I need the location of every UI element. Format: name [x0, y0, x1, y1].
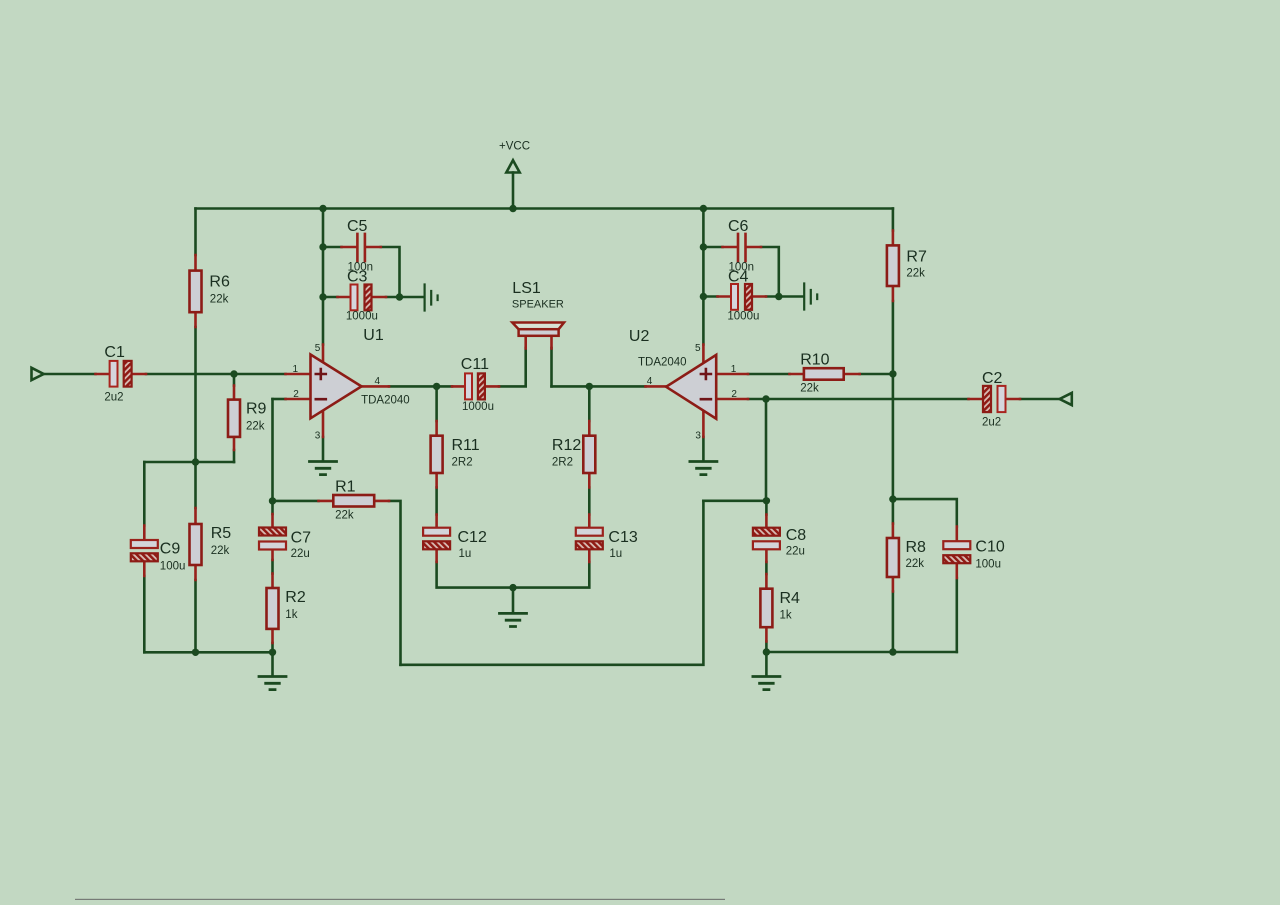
wire C5 row left: [323, 246, 342, 249]
wire U1 pin2 riser x=272.5: [271, 399, 274, 501]
svg-text:22k: 22k: [906, 268, 925, 280]
svg-text:1: 1: [293, 364, 299, 375]
wire R12 column top: [588, 386, 591, 421]
wire R11 to C12: [435, 488, 438, 515]
svg-text:1000u: 1000u: [346, 311, 378, 323]
wire top VCC rail: [196, 207, 893, 210]
svg-text:R2: R2: [285, 589, 306, 606]
svg-text:5: 5: [695, 343, 701, 354]
junction C5 left: [319, 243, 326, 250]
svg-text:22u: 22u: [786, 546, 805, 558]
capacitor C9: [131, 526, 158, 577]
wire C5 row right with corner down: [381, 247, 400, 297]
wire C4 row left: [703, 295, 717, 298]
resistor R10: [790, 368, 860, 380]
svg-text:C8: C8: [786, 527, 807, 544]
svg-text:22k: 22k: [335, 510, 354, 522]
wire U2 pin3 to ground: [702, 437, 705, 461]
wire R2 bottom to ground junction: [271, 643, 274, 652]
wire R8 top: [892, 499, 895, 523]
junction center ground node: [509, 584, 516, 591]
wire U2 pin1 row: [748, 373, 790, 376]
capacitor C1: [96, 361, 147, 387]
svg-text:C12: C12: [458, 529, 487, 546]
wire U1 pin5 column from rail: [322, 209, 325, 345]
junction bottom-left R5: [192, 649, 199, 656]
junction C6 left: [700, 243, 707, 250]
svg-text:1k: 1k: [285, 609, 297, 621]
svg-text:22u: 22u: [291, 548, 310, 560]
wire R6 to junction 462: [194, 327, 197, 462]
junction C4 right: [775, 293, 782, 300]
svg-text:2: 2: [731, 389, 737, 400]
wire R11 column top: [435, 386, 438, 421]
capacitor C7: [259, 514, 286, 560]
junction x=323 on rail: [319, 205, 326, 212]
resistor R2: [267, 574, 279, 644]
svg-text:1u: 1u: [459, 548, 472, 560]
junction R8 top node: [889, 495, 896, 502]
terminal output: [1060, 393, 1072, 405]
capacitor C2: [969, 386, 1021, 412]
wire U1 pin3 to ground: [322, 437, 325, 461]
svg-text:2R2: 2R2: [552, 457, 573, 469]
capacitor C13: [576, 515, 603, 563]
wire U1 output to C11: [389, 385, 452, 388]
ground below R2: [271, 652, 274, 675]
resistor R9: [228, 386, 240, 451]
wire C10 bottom: [955, 578, 958, 652]
svg-text:3: 3: [695, 430, 701, 441]
wire C9 bottom to bottom-left rail: [143, 576, 146, 652]
U1 pin numbers: [293, 343, 381, 442]
wire R9 column top: [233, 374, 236, 386]
svg-text:R1: R1: [335, 479, 356, 496]
capacitor C4: [718, 284, 767, 310]
svg-text:2: 2: [293, 389, 299, 400]
wire bottom-right rail y=652: [766, 651, 956, 654]
wire C6 row right with corner down: [761, 247, 779, 297]
svg-text:R9: R9: [246, 401, 267, 418]
wire C4 row right to ground: [766, 295, 803, 298]
wire R5 bottom to bottom-left rail: [194, 580, 197, 652]
svg-text:2R2: 2R2: [452, 457, 473, 469]
svg-text:22k: 22k: [906, 558, 925, 570]
svg-text:22k: 22k: [211, 545, 230, 557]
wire bottom-left rail y=652.3: [144, 651, 272, 654]
wire center ground stem: [512, 588, 515, 613]
junction R1 left node: [269, 497, 276, 504]
svg-text:1k: 1k: [780, 610, 792, 622]
ground below U2: [690, 462, 717, 475]
svg-text:C7: C7: [291, 530, 312, 547]
capacitor C6: [723, 234, 762, 261]
wire R9-bottom row y=462: [144, 461, 234, 464]
wire C3 row right to ground: [386, 296, 424, 299]
ground below R4: [765, 652, 768, 676]
op-amp U2: [646, 345, 749, 438]
capacitor C10: [943, 527, 970, 579]
wire C8 bottom to R4: [765, 562, 768, 574]
speaker LS1: [512, 323, 564, 349]
svg-text:C11: C11: [461, 356, 489, 373]
wire R10 right to R7 column: [860, 373, 893, 376]
svg-text:LS1: LS1: [512, 280, 541, 297]
wire feedback bottom run: [401, 501, 704, 665]
U2 pin numbers: [647, 343, 738, 442]
svg-text:3: 3: [315, 430, 321, 441]
junction bottom-right R8: [889, 648, 896, 655]
junction R5 top node: [192, 458, 199, 465]
svg-text:C3: C3: [347, 269, 368, 286]
capacitor C11: [452, 373, 499, 399]
terminal input: [32, 368, 44, 380]
capacitor C8: [753, 515, 780, 563]
wire C1 to U1 pin1: [146, 373, 286, 376]
junction bottom-left R2: [269, 649, 276, 656]
wire C11 to speaker left lead: [499, 348, 526, 386]
svg-text:C1: C1: [104, 344, 125, 361]
wire R4 bottom to ground junction: [765, 642, 768, 653]
wire U2 pin2 row to C2: [748, 398, 969, 401]
wire R1 left: [273, 500, 319, 503]
wire C3 row left: [323, 296, 338, 299]
wire U1 pin2 horizontal: [273, 398, 286, 401]
svg-text:C10: C10: [975, 539, 1004, 556]
wire R7 bottom through junctions: [892, 301, 895, 499]
svg-text:C6: C6: [728, 218, 749, 235]
wire feedback to C8 junction: [703, 499, 766, 502]
svg-text:5: 5: [315, 343, 321, 354]
ground (rotated) right of C4: [804, 284, 817, 310]
svg-text:22k: 22k: [210, 294, 229, 306]
ground below U1: [310, 462, 337, 475]
wire VCC stem: [512, 173, 515, 209]
resistor R4: [760, 574, 772, 642]
resistor R1: [319, 495, 390, 507]
svg-text:1: 1: [731, 364, 737, 375]
svg-text:R8: R8: [906, 539, 927, 556]
junction bottom-right R4: [763, 648, 770, 655]
junction U1 output node: [433, 383, 440, 390]
wire input terminal to C1: [44, 373, 96, 376]
junction C8 top node: [763, 497, 770, 504]
junction x=703.4 on rail: [700, 205, 707, 212]
resistor R7: [887, 231, 899, 302]
junction U2 output node: [586, 383, 593, 390]
wire U2 pin2 junction riser: [765, 399, 768, 501]
capacitor C3: [338, 285, 387, 311]
svg-text:R12: R12: [552, 437, 581, 454]
wire U2 pin5 column from rail: [702, 209, 705, 345]
svg-text:+VCC: +VCC: [499, 141, 530, 153]
wire speaker right to U2 output: [552, 385, 646, 388]
svg-text:TDA2040: TDA2040: [638, 357, 687, 369]
svg-text:2u2: 2u2: [982, 417, 1001, 429]
junction C3 left: [319, 293, 326, 300]
svg-text:1u: 1u: [609, 548, 622, 560]
svg-text:2u2: 2u2: [104, 392, 123, 404]
svg-text:C2: C2: [982, 370, 1003, 387]
wire C12 bottom to center ground row: [437, 562, 513, 588]
bottom edge artifact line: [75, 899, 725, 900]
svg-text:R11: R11: [452, 437, 480, 454]
svg-text:C9: C9: [160, 541, 181, 558]
svg-text:R4: R4: [780, 590, 801, 607]
ground (rotated) right of C3: [425, 285, 438, 311]
wire R1 right to corner: [389, 501, 401, 665]
junction VCC on rail: [509, 205, 516, 212]
wire R7 column from rail: [892, 209, 895, 231]
resistor R11: [431, 421, 443, 488]
svg-text:R6: R6: [209, 274, 230, 291]
wire R8 bottom: [892, 592, 895, 653]
resistor R8: [887, 524, 899, 592]
wire C6 row left: [703, 246, 722, 249]
svg-text:4: 4: [375, 376, 381, 387]
wire left column x=195.5 rail to R6: [194, 209, 197, 256]
wire speaker right lead down: [550, 348, 553, 386]
svg-text:U2: U2: [629, 328, 650, 345]
svg-text:R10: R10: [800, 352, 829, 369]
wire C8 top stub area: [765, 501, 768, 515]
wire C10 top row: [893, 499, 957, 526]
junction C3 right: [396, 293, 403, 300]
resistor R5: [190, 508, 202, 580]
svg-text:TDA2040: TDA2040: [361, 395, 410, 407]
wire C2 to output terminal: [1020, 398, 1059, 401]
svg-text:C4: C4: [728, 269, 749, 286]
wire C7 top stub area: [271, 501, 274, 514]
junction R9 top node: [230, 370, 237, 377]
svg-text:1000u: 1000u: [727, 311, 759, 323]
svg-text:C13: C13: [608, 529, 637, 546]
wire C7 bottom to R2: [271, 560, 274, 574]
wire C13 bottom to center ground row: [513, 562, 589, 588]
wire junction 462 to R5: [194, 462, 197, 508]
svg-text:100u: 100u: [975, 559, 1001, 571]
op-amp U1: [286, 345, 390, 438]
capacitor C12: [423, 515, 450, 563]
wire R9 bottom: [233, 450, 236, 462]
capacitor C5: [342, 234, 381, 261]
svg-text:R7: R7: [906, 249, 927, 266]
svg-text:22k: 22k: [246, 421, 265, 433]
svg-text:4: 4: [647, 376, 653, 387]
svg-text:C5: C5: [347, 218, 368, 235]
wire C9 column top: [143, 462, 146, 526]
svg-text:SPEAKER: SPEAKER: [512, 299, 564, 311]
junction C4 left: [700, 293, 707, 300]
svg-text:U1: U1: [363, 327, 384, 344]
svg-text:100u: 100u: [160, 561, 186, 573]
svg-text:1000u: 1000u: [462, 401, 494, 413]
svg-text:22k: 22k: [800, 383, 819, 395]
wire R12 to C13: [588, 488, 591, 515]
ground center: [500, 613, 527, 626]
resistor R6: [190, 255, 202, 327]
resistor R12: [583, 421, 595, 488]
junction R10 right node: [889, 370, 896, 377]
junction U2 pin2 node: [762, 395, 769, 402]
power symbol +VCC: [506, 160, 519, 172]
svg-text:R5: R5: [211, 525, 232, 542]
